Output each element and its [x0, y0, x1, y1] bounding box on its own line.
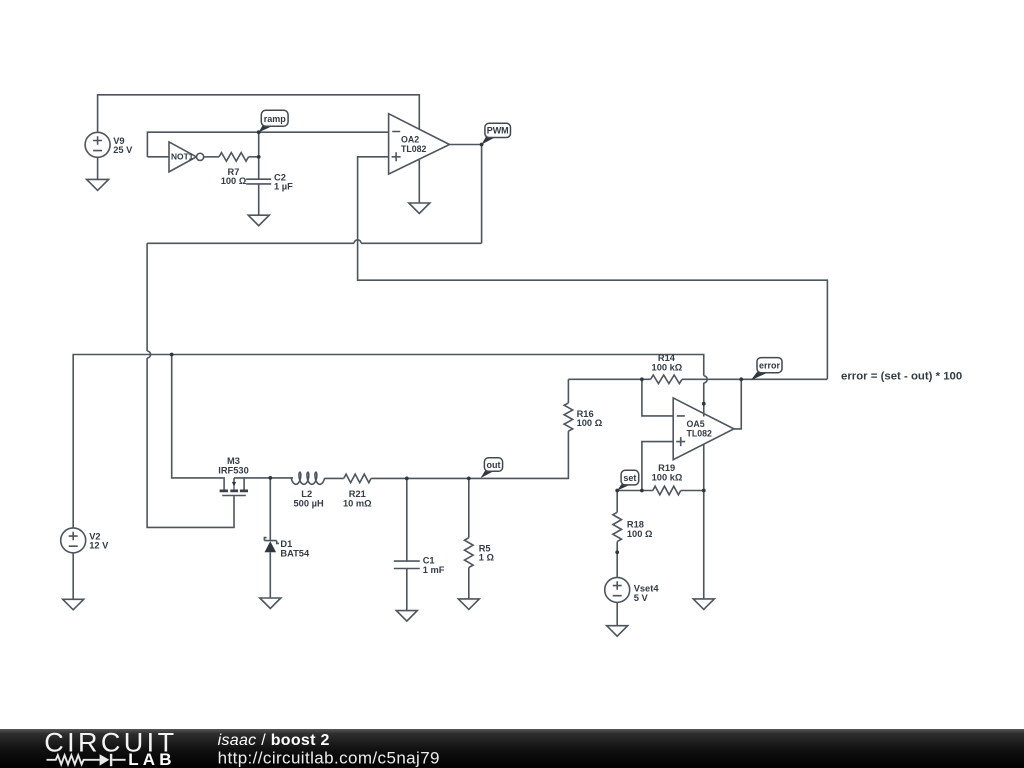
svg-text:12 V: 12 V	[89, 541, 109, 551]
svg-text:PWM: PWM	[487, 126, 509, 136]
svg-text:100 Ω: 100 Ω	[221, 176, 247, 186]
svg-text:set: set	[623, 473, 636, 483]
svg-text:out: out	[487, 460, 501, 470]
svg-text:NOT1: NOT1	[171, 152, 194, 162]
svg-text:TL082: TL082	[401, 144, 427, 154]
svg-text:error = (set - out) * 100: error = (set - out) * 100	[841, 371, 962, 383]
svg-text:isaac / boost 2: isaac / boost 2	[218, 732, 330, 749]
svg-text:100 Ω: 100 Ω	[577, 418, 603, 428]
svg-text:IRF530: IRF530	[218, 465, 249, 475]
svg-text:100 kΩ: 100 kΩ	[652, 473, 683, 483]
svg-text:5 V: 5 V	[634, 593, 649, 603]
svg-text:error: error	[759, 361, 781, 371]
svg-text:http://circuitlab.com/c5naj79: http://circuitlab.com/c5naj79	[218, 748, 440, 767]
svg-text:LAB: LAB	[128, 750, 176, 768]
svg-text:ramp: ramp	[264, 114, 287, 124]
svg-text:TL082: TL082	[687, 429, 713, 439]
svg-text:10 mΩ: 10 mΩ	[343, 498, 372, 508]
svg-text:BAT54: BAT54	[280, 548, 310, 558]
svg-text:100 kΩ: 100 kΩ	[652, 362, 683, 372]
svg-text:25 V: 25 V	[113, 145, 133, 155]
svg-text:1 mF: 1 mF	[423, 565, 445, 575]
svg-text:1 µF: 1 µF	[274, 181, 293, 191]
svg-text:100 Ω: 100 Ω	[627, 529, 653, 539]
svg-text:500 µH: 500 µH	[294, 498, 324, 508]
svg-text:OA5: OA5	[687, 419, 705, 429]
svg-text:1 Ω: 1 Ω	[479, 553, 495, 563]
